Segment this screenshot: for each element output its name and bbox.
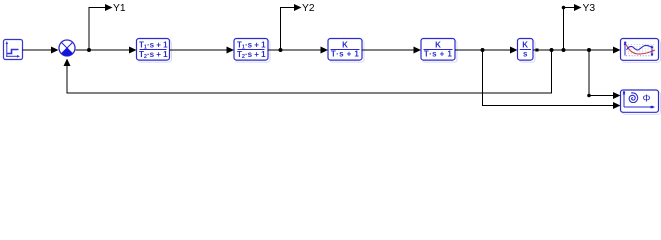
wire block4 to block5 — [455, 49, 511, 51]
svg-text:Y1: Y1 — [113, 3, 126, 14]
node Y2 tap — [279, 48, 283, 52]
output port dot of block 5 — [536, 49, 539, 52]
arrowhead into scope — [613, 47, 621, 54]
block 3 first-order lag K/(Ts+1) — [328, 39, 364, 63]
arrowhead into summer — [51, 47, 59, 54]
svg-text:s: s — [523, 50, 528, 59]
wire block5 to scope — [533, 49, 614, 51]
svg-text:T·s + 1: T·s + 1 — [331, 50, 360, 59]
node Y3 tap — [562, 48, 566, 52]
svg-text:K: K — [342, 40, 348, 49]
svg-text:K: K — [522, 40, 528, 49]
svg-text:K: K — [435, 40, 441, 49]
arrowhead into block4 — [414, 47, 422, 54]
Y2 arrowhead — [294, 4, 302, 11]
svg-text:Φ: Φ — [643, 94, 651, 105]
wire summer to block1 — [76, 49, 131, 51]
node corner upper input — [587, 94, 591, 98]
wire to phase-plot lower input — [483, 50, 614, 106]
arrowhead into block5 — [510, 47, 518, 54]
Y1 tap wire — [89, 8, 106, 51]
svg-text:T·s + 1: T·s + 1 — [424, 50, 453, 59]
block 5 integrator K/s — [518, 39, 536, 63]
arrowhead into block3 — [321, 47, 329, 54]
feedback arrowhead into summer bottom — [64, 59, 71, 67]
node feedback branch — [550, 48, 554, 52]
wire block1 to block2 — [170, 49, 229, 51]
arrowhead into phase-plot upper input — [613, 92, 621, 99]
node tap to phase plot (lower input) — [481, 48, 485, 52]
wire source to summer — [23, 49, 53, 51]
block 4 first-order lag K/(Ts+1) — [421, 39, 457, 63]
svg-text:T2·s + 1: T2·s + 1 — [237, 50, 266, 60]
Y3 tap wire — [564, 8, 575, 51]
wire block3 to block4 — [362, 49, 415, 51]
wire block2 to block3 — [268, 49, 322, 51]
Y2 tap wire — [281, 8, 295, 51]
block 1 lead-lag T1s+1/T2s+1 — [137, 39, 172, 63]
scope block (time diagram sink) — [621, 39, 661, 63]
arrowhead into block1 — [129, 47, 137, 54]
svg-text:Y3: Y3 — [583, 3, 596, 14]
Y1 arrowhead — [105, 4, 113, 11]
arrowhead into phase-plot lower input — [613, 102, 621, 109]
feedback wire to summer — [67, 50, 552, 93]
Y3 arrowhead — [574, 4, 582, 11]
node Y3 corner — [562, 6, 566, 10]
source block (step input) — [4, 40, 23, 60]
phase-plot block (locus / phi sink) — [621, 90, 661, 114]
node after summer — [87, 48, 91, 52]
block 2 lead-lag T1s+1/T2s+1 — [234, 39, 270, 63]
wire to phase-plot upper input — [589, 50, 614, 96]
svg-text:T2·s + 1: T2·s + 1 — [139, 50, 168, 60]
summing junction — [59, 40, 75, 56]
arrowhead into block2 — [227, 47, 235, 54]
svg-text:Y2: Y2 — [302, 3, 315, 14]
node tap to phase plot (upper input) — [587, 48, 591, 52]
